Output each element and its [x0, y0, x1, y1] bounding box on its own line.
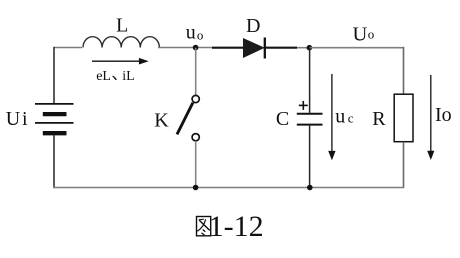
switch K bottom contact circle [192, 134, 199, 141]
svg-text:K: K [154, 110, 169, 132]
inductor L [83, 37, 159, 48]
capacitor C plate bottom [297, 124, 323, 126]
svg-text:u: u [335, 106, 345, 128]
capacitor C plate top [297, 113, 323, 115]
svg-text:iL: iL [122, 69, 134, 84]
battery Ui plate 1 (long thin) [35, 103, 74, 105]
battery plate 3 (long thin) [35, 122, 74, 124]
svg-text:U: U [353, 24, 368, 46]
ideographic comma [112, 76, 117, 80]
svg-text:R: R [372, 108, 386, 130]
wire node2 to top-right corner [310, 47, 405, 49]
bottom rail wire [53, 187, 404, 189]
battery wire upper [53, 47, 55, 103]
diode D triangle [243, 39, 264, 58]
node uo dot [193, 45, 199, 51]
switch K top contact circle [192, 95, 199, 102]
svg-text:D: D [246, 15, 260, 37]
wire inductor to node uo [158, 47, 212, 49]
svg-text:u: u [186, 21, 196, 43]
svg-text:eL: eL [96, 69, 111, 84]
battery plate 2 (short thick) [43, 112, 67, 116]
wire diode to node2 (thick then thin) [265, 47, 297, 49]
capacitor plus sign [299, 101, 308, 110]
bottom node dot at switch [193, 185, 199, 191]
battery plate 4 (short thick) [43, 131, 67, 135]
arrow uc [328, 74, 335, 160]
arrow Io [427, 75, 434, 160]
resistor R body [394, 94, 413, 142]
bottom node dot at capacitor [307, 185, 313, 191]
wire top-left horizontal [54, 47, 83, 49]
diode D cathode bar [264, 38, 266, 59]
svg-text:L: L [116, 15, 128, 37]
capacitor wire lower [309, 126, 311, 188]
svg-text:o: o [197, 28, 204, 43]
wire node uo to diode (thick) [212, 47, 244, 49]
capacitor wire upper [309, 48, 311, 113]
battery wire lower [53, 135, 55, 188]
svg-text:i: i [22, 108, 28, 130]
switch wire lower [195, 141, 197, 188]
svg-text:o: o [368, 26, 375, 41]
switch K lever [177, 103, 193, 135]
svg-text:c: c [348, 111, 354, 126]
switch wire upper [195, 48, 197, 96]
svg-text:1-12: 1-12 [209, 210, 264, 243]
svg-text:U: U [6, 108, 21, 130]
node after diode dot [307, 45, 313, 51]
svg-text:C: C [276, 108, 289, 130]
wire right vertical upper [403, 47, 405, 94]
svg-text:Io: Io [435, 104, 452, 126]
caption glyph 图 (drawn) [197, 217, 211, 236]
wire right vertical lower [403, 142, 405, 189]
arrow eL iL [92, 58, 149, 65]
